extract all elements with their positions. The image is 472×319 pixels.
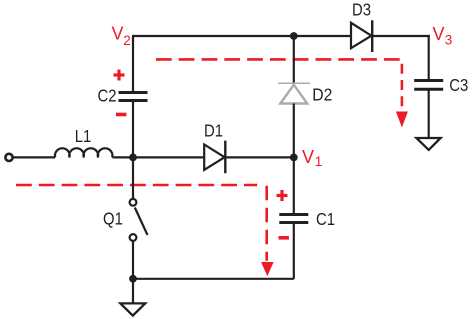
plus sign C1 [277, 190, 288, 201]
current path 1 dashed vertical [401, 64, 404, 110]
current path 2 dashed vertical [265, 186, 268, 261]
svg-text:L1: L1 [75, 127, 92, 146]
svg-text:2: 2 [123, 33, 131, 48]
wire D2 to V1 [293, 104, 295, 158]
current path 2 dashed horizontal [16, 184, 257, 187]
wire switch to bottom node [132, 241, 134, 279]
svg-text:V: V [302, 147, 314, 167]
diode D2 (gray) [278, 83, 310, 103]
capacitor C2 [119, 93, 148, 101]
current path 2 arrowhead [261, 262, 274, 276]
wire D2 branch upper [293, 36, 295, 83]
svg-text:V: V [112, 24, 124, 44]
ground main [120, 303, 145, 315]
node junction top (D2/top wire) [290, 32, 298, 40]
svg-text:C3: C3 [449, 76, 468, 95]
inductor L1 [55, 148, 112, 157]
wire D1 to node V1 [225, 156, 293, 158]
wire V1 down to C1 [293, 157, 295, 214]
wire D3 cathode to V3 corner [372, 35, 430, 37]
capacitor C1 [279, 215, 308, 223]
plus sign C2 [114, 70, 125, 81]
switch Q1 top contact [130, 199, 137, 206]
current path 1 arrowhead [396, 112, 408, 128]
wire C2 bottom to main node [132, 101, 134, 158]
svg-text:1: 1 [315, 154, 323, 169]
svg-text:C2: C2 [97, 87, 116, 106]
wire bottom node to ground [132, 279, 134, 304]
switch Q1 bottom contact [130, 234, 137, 241]
wire main node to switch [132, 157, 134, 198]
svg-text:3: 3 [445, 33, 453, 48]
svg-text:C1: C1 [316, 210, 335, 229]
svg-text:V: V [433, 24, 445, 44]
wire L1 to D1 [112, 156, 204, 158]
node junction bottom [129, 275, 137, 283]
wire V2 corner down to C2 top [132, 35, 134, 93]
wire C1 to bottom [293, 223, 295, 279]
label V2 [112, 24, 131, 48]
minus sign C2 [116, 113, 126, 117]
ground C3 [416, 138, 440, 150]
svg-text:Q1: Q1 [103, 209, 123, 228]
switch Q1 blade [135, 208, 148, 236]
minus sign C1 [279, 236, 289, 240]
node junction main (L1/C2/Q1) [129, 154, 137, 162]
label V1 [302, 147, 322, 169]
wire bottom horizontal [133, 278, 294, 280]
svg-text:D1: D1 [204, 121, 223, 140]
wire V3 corner down to C3 [428, 35, 430, 81]
diode D3 [351, 20, 372, 52]
diode D1 [204, 141, 225, 174]
wire input to L1 [14, 156, 56, 158]
svg-text:D3: D3 [352, 1, 371, 20]
node V1 junction [290, 154, 298, 162]
wire top horizontal V2 to D3 [133, 35, 351, 37]
input terminal circle [5, 154, 12, 161]
wire C3 to ground [428, 89, 430, 138]
label V3 [433, 24, 453, 48]
current path 1 dashed horizontal [156, 58, 400, 61]
svg-text:D2: D2 [312, 85, 332, 105]
capacitor C3 [414, 81, 443, 90]
